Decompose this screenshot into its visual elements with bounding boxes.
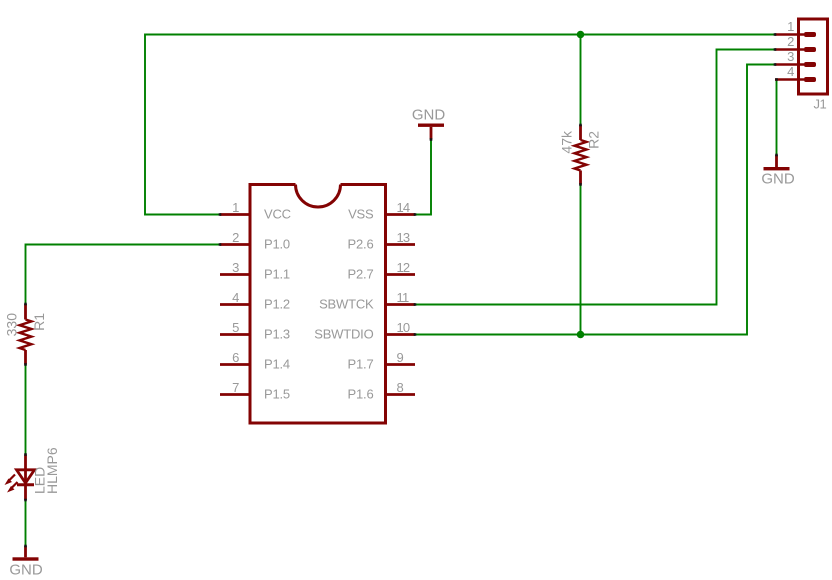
svg-text:VSS: VSS [348,207,374,222]
svg-text:P1.4: P1.4 [264,357,290,372]
svg-text:GND: GND [761,171,795,188]
svg-text:14: 14 [397,200,410,215]
svg-text:P1.0: P1.0 [264,237,290,252]
svg-text:1: 1 [787,19,794,34]
svg-text:330: 330 [4,313,20,337]
svg-text:2: 2 [787,34,794,49]
svg-text:12: 12 [397,260,410,275]
svg-text:R2: R2 [586,131,602,149]
svg-text:SBWTCK: SBWTCK [319,297,374,312]
svg-text:R1: R1 [31,313,47,331]
svg-text:4: 4 [787,64,794,79]
svg-text:13: 13 [397,230,410,245]
svg-text:4: 4 [232,290,239,305]
svg-text:P1.6: P1.6 [348,387,374,402]
svg-text:11: 11 [397,290,409,305]
svg-text:47k: 47k [559,130,575,154]
svg-text:P2.6: P2.6 [348,237,374,252]
svg-text:P2.7: P2.7 [348,267,374,282]
svg-text:8: 8 [397,380,404,395]
svg-text:1: 1 [232,200,239,215]
svg-text:9: 9 [397,350,404,365]
svg-text:J1: J1 [814,97,827,112]
svg-text:GND: GND [9,562,43,579]
svg-text:3: 3 [787,49,794,64]
svg-text:5: 5 [232,320,239,335]
svg-text:GND: GND [412,107,446,124]
svg-text:P1.7: P1.7 [348,357,374,372]
svg-text:P1.5: P1.5 [264,387,290,402]
svg-text:P1.1: P1.1 [264,267,290,282]
svg-text:P1.3: P1.3 [264,327,290,342]
svg-text:VCC: VCC [264,207,291,222]
svg-text:2: 2 [232,230,239,245]
svg-text:3: 3 [232,260,239,275]
svg-text:7: 7 [232,380,239,395]
svg-text:SBWTDIO: SBWTDIO [314,327,373,342]
svg-text:6: 6 [232,350,239,365]
svg-text:10: 10 [397,320,410,335]
svg-text:HLMP6: HLMP6 [44,447,60,494]
svg-text:P1.2: P1.2 [264,297,290,312]
